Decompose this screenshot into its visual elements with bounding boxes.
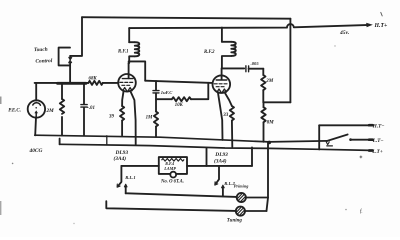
relay RL2 fixed contact (222, 188, 224, 197)
svg-text:45v.: 45v. (339, 30, 349, 36)
stray marks (360, 12, 382, 158)
svg-text:-.01: -.01 (87, 106, 95, 111)
svg-text:39: 39 (108, 114, 115, 119)
terminal L.T.- line (352, 139, 369, 141)
svg-text:R.F.1: R.F.1 (118, 50, 129, 55)
anchor mark under switch (326, 142, 329, 145)
resistor 39 (120, 106, 124, 121)
svg-text:8M: 8M (267, 121, 275, 126)
switch LT lever (327, 135, 347, 141)
wire top rail A (82, 17, 290, 19)
wire V2 plate tap (222, 67, 244, 69)
junction heavy segment (58, 82, 87, 85)
svg-text:.005: .005 (251, 61, 260, 66)
svg-text:R.L.1: R.L.1 (125, 175, 135, 180)
svg-text:33: 33 (222, 113, 229, 118)
svg-text:Control: Control (35, 58, 53, 65)
resistor in lamp box (162, 159, 184, 162)
terminal L.T.+ end (369, 149, 372, 152)
wire RL1 to priming jack (126, 193, 237, 197)
photocell P.E.C. (28, 100, 45, 117)
resistor 8M (lower) (263, 102, 265, 107)
lamp box (159, 157, 187, 174)
relay contact RL2 lever (216, 166, 219, 184)
capacitor .01 (83, 83, 85, 104)
lamp bulb circle (170, 172, 176, 178)
terminal H.T.- line (319, 124, 369, 126)
svg-text:L.T−: L.T− (372, 138, 384, 144)
svg-text:1M: 1M (146, 115, 153, 120)
tube V1 filament (123, 88, 132, 91)
touch contact bracket (59, 48, 70, 66)
wire to V1 grid (103, 82, 119, 84)
V2 left filament leg (218, 92, 223, 140)
svg-text:40CG: 40CG (29, 148, 43, 154)
V2 right filament leg (225, 92, 232, 106)
svg-text:(3A4): (3A4) (114, 155, 127, 162)
RF choke RF.1 (129, 41, 135, 43)
relay contact RL1 lever (118, 166, 121, 186)
resistor 2M (V2 grid leak upper) (262, 69, 264, 75)
wire rail B (HT+ feed with hop over vertical) (129, 24, 369, 28)
relay RL1 fixed contact (125, 187, 127, 194)
tube V1 envelope (118, 74, 136, 92)
PEC bottom lead (34, 117, 37, 135)
svg-text:H.T+: H.T+ (374, 23, 388, 29)
tick between buses (106, 136, 108, 145)
tube V2 envelope (213, 75, 231, 93)
bus 2 (LT) hook (59, 139, 61, 145)
svg-text:1uF.C: 1uF.C (161, 90, 173, 95)
wire riser label-box left (206, 149, 208, 166)
touch contact upper arrow (69, 56, 71, 58)
resistor 33 (230, 106, 234, 121)
wire lamp box right (187, 165, 252, 167)
resistor 68K (series grid) (88, 81, 102, 85)
jack TUNING (236, 207, 245, 216)
wire tuning left (106, 201, 236, 211)
wire vertical jacks riser (267, 142, 269, 211)
svg-text:(3A4): (3A4) (214, 157, 227, 164)
photocell PEC top lead (35, 83, 37, 101)
tube V2 filament (217, 89, 226, 92)
terminal H.T.+ arrow (366, 23, 373, 27)
svg-text:Tuning: Tuning (227, 218, 243, 223)
wire riser to V2 grid (191, 83, 208, 99)
tube V1 grid dashes (120, 81, 133, 83)
svg-text:LAMP: LAMP (163, 166, 176, 171)
wire touch-control drop from rail A (70, 17, 82, 56)
wire priming right (246, 197, 268, 199)
capacitor .005 (246, 66, 249, 72)
jack PRIMING (237, 193, 246, 202)
svg-text:L.T+: L.T+ (371, 149, 383, 155)
svg-text:2M: 2M (46, 108, 55, 114)
svg-text:H.T−: H.T− (372, 124, 385, 130)
svg-text:DL93: DL93 (214, 152, 228, 158)
svg-text:Priming: Priming (234, 183, 249, 188)
RF choke RF.2 (222, 41, 231, 43)
svg-text:10K: 10K (175, 103, 184, 108)
svg-text:DL93: DL93 (115, 150, 129, 156)
resistor 1M (154, 112, 158, 127)
V1 right filament leg (130, 91, 136, 145)
node junction dot (268, 141, 272, 145)
terminal block vertical (318, 125, 320, 149)
tube V1 plate (128, 63, 130, 78)
resistor 10K (172, 97, 191, 101)
svg-text:2M: 2M (265, 79, 274, 84)
wire HT riser (289, 19, 291, 103)
resistor 2M grid leak (61, 83, 63, 99)
svg-text:P.E.C.: P.E.C. (8, 109, 21, 114)
wire riser box to bus (251, 147, 253, 166)
wire junction to HT riser (263, 101, 290, 103)
V1 left filament leg (122, 91, 124, 106)
wire tuning right (245, 210, 266, 212)
RF choke 1 drop (128, 28, 130, 42)
tube V2 plate (221, 68, 223, 79)
svg-text:68K: 68K (89, 76, 98, 81)
bus 2 (LT+) (60, 144, 371, 150)
tube V2 grid dashes (214, 83, 227, 85)
wire touch control to grid bus (69, 65, 71, 83)
touch contact lower arrow (69, 63, 71, 66)
svg-text:f.: f. (360, 210, 363, 215)
svg-text:Touch: Touch (34, 47, 48, 53)
wire V1 plate tap (129, 61, 146, 80)
wire coupling to V2 grid (145, 81, 212, 83)
wire to grid resistor (156, 98, 172, 100)
RF choke 2 drop (221, 28, 223, 42)
svg-text:No. O 6T.A.: No. O 6T.A. (160, 180, 184, 185)
bus 1 (HT-) (35, 135, 328, 142)
capacitor 1uF drop (155, 81, 157, 90)
wire lamp box left (121, 165, 158, 167)
wire input grid bus (35, 82, 89, 84)
svg-text:R.F.2: R.F.2 (204, 50, 215, 55)
